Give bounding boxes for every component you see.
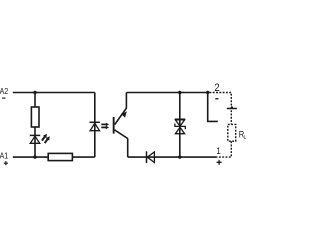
svg-text:2: 2	[214, 81, 219, 94]
svg-text:A2: A2	[0, 86, 8, 96]
svg-text:1: 1	[216, 145, 221, 156]
svg-text:A1: A1	[0, 151, 8, 161]
